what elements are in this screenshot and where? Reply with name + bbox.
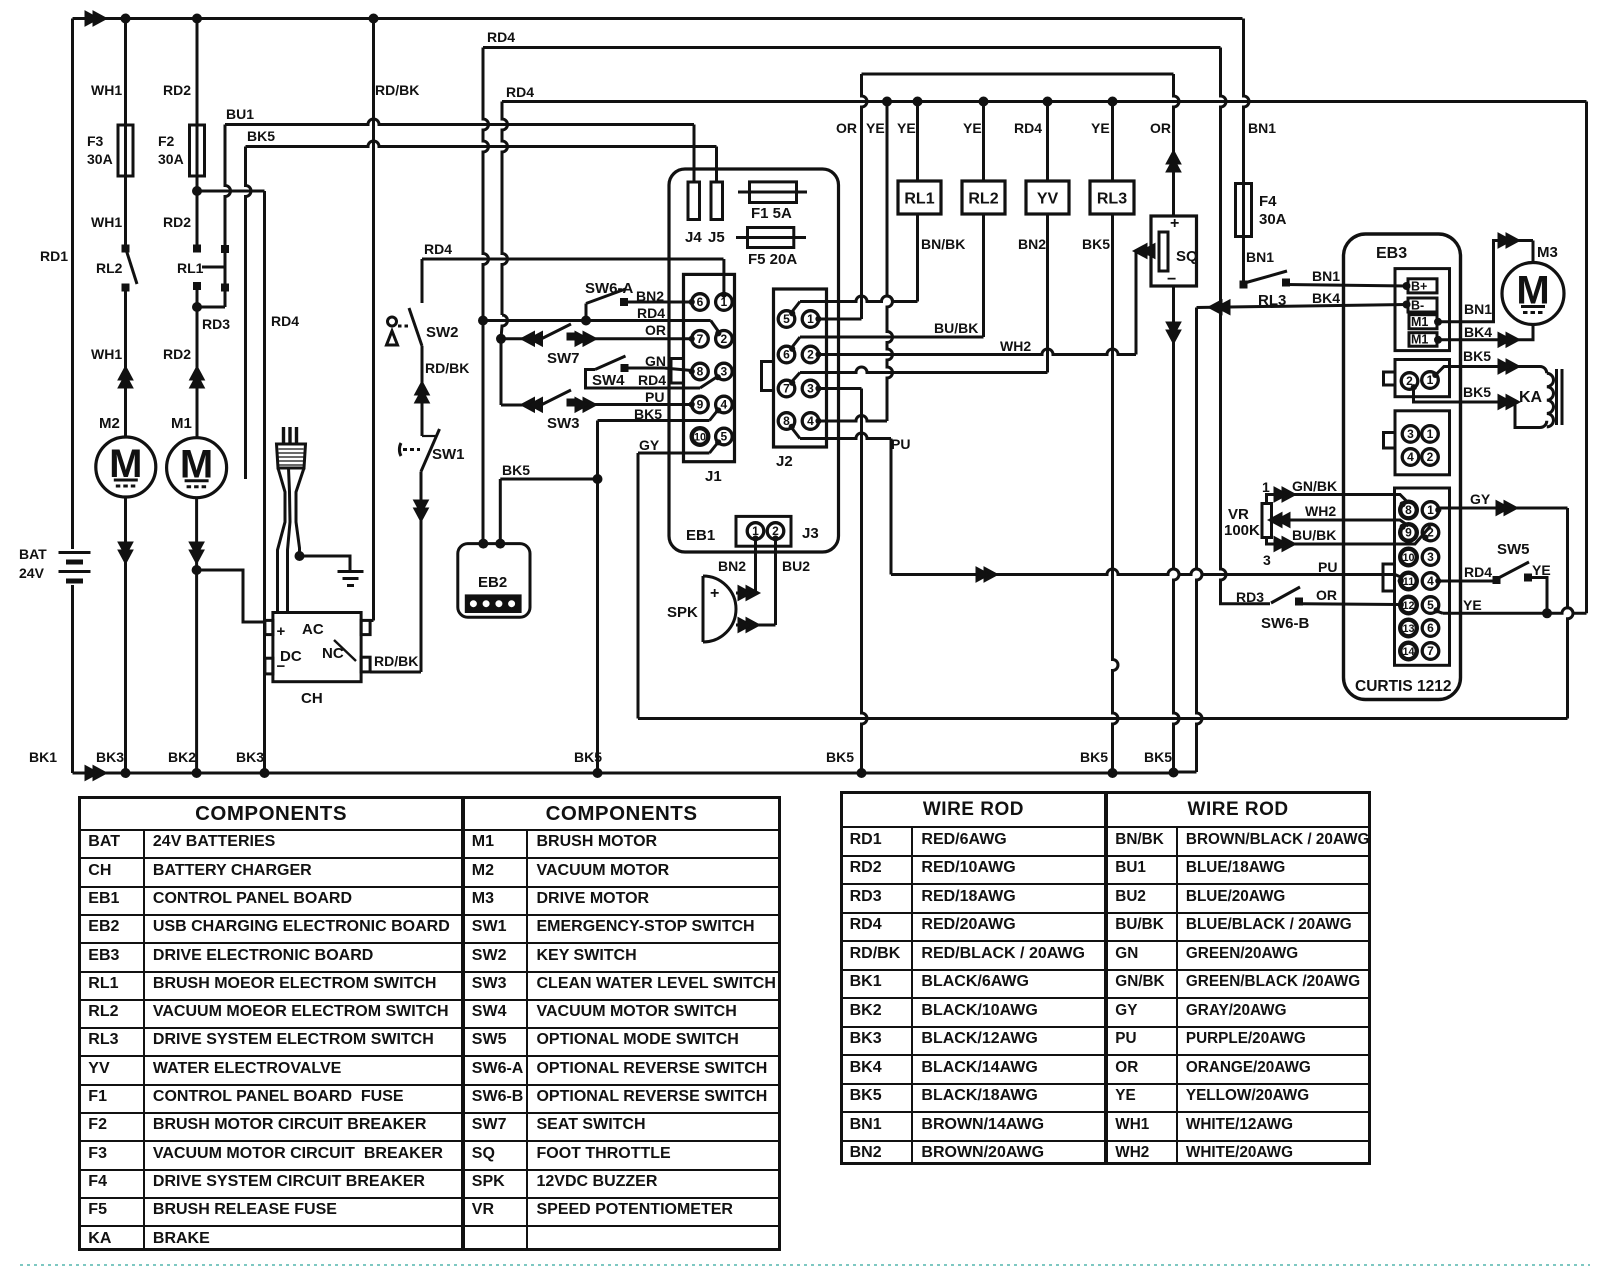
dashes key SW2 <box>398 325 411 328</box>
svg-text:OR: OR <box>836 120 857 136</box>
wire RD2 upper <box>196 19 199 126</box>
pin J2-8 <box>778 413 795 430</box>
svg-text:BK3: BK3 <box>96 749 124 765</box>
svg-text:RD3: RD3 <box>202 316 230 332</box>
svg-text:OR: OR <box>1316 587 1337 603</box>
svg-text:F5 20A: F5 20A <box>748 251 797 268</box>
svg-text:1: 1 <box>1427 427 1434 441</box>
wire BK5 horizontal <box>246 141 717 147</box>
pin J1-4 <box>716 396 733 413</box>
svg-text:3: 3 <box>721 365 728 379</box>
arrow down M2 wire <box>118 542 133 564</box>
arrow up SQ wire <box>1166 150 1181 172</box>
svg-text:OR: OR <box>1150 120 1171 136</box>
pin 14pin-3 <box>1422 549 1439 566</box>
svg-text:GY: GY <box>639 437 660 453</box>
blade SW2 <box>409 308 422 346</box>
svg-text:14: 14 <box>1402 646 1414 658</box>
svg-text:PU: PU <box>891 436 910 452</box>
wire RL2 coil bottom <box>982 214 985 337</box>
pin J1-10 <box>692 428 709 445</box>
wire RD4 to EB2 <box>482 321 485 544</box>
svg-text:6: 6 <box>783 348 790 362</box>
svg-text:BU/BK: BU/BK <box>934 320 978 336</box>
arrow up M2 wire <box>118 366 133 388</box>
wire RD4 into J1 pin1 <box>722 259 725 294</box>
junction RL3 bus <box>1108 97 1118 107</box>
terminal block B+ B- M1 M1 <box>1395 269 1450 351</box>
wire BK5 diagonal to pin4 <box>710 411 718 421</box>
svg-text:1: 1 <box>1262 479 1270 495</box>
svg-text:B-: B- <box>1411 299 1424 313</box>
terminal CH DC plus <box>265 620 273 634</box>
wire plug earth <box>296 468 304 556</box>
pin attachment dots <box>689 299 695 305</box>
wire BU1 horizontal <box>225 119 694 125</box>
throttle SQ element <box>1159 232 1168 271</box>
wire YV coil bottom <box>1046 214 1049 373</box>
svg-text:J3: J3 <box>802 525 819 542</box>
wire SW1 down <box>420 472 423 673</box>
svg-text:BK5: BK5 <box>1463 384 1491 400</box>
svg-text:2: 2 <box>1427 450 1434 464</box>
svg-text:SW3: SW3 <box>547 415 580 432</box>
relay coil RL2 <box>962 181 1005 214</box>
svg-text:30A: 30A <box>1259 211 1287 228</box>
wire GY from J1 pin5 <box>638 452 710 455</box>
svg-text:RD2: RD2 <box>163 82 191 98</box>
wire RD4 main bus <box>502 100 1587 103</box>
blade SW6-B <box>1271 587 1300 603</box>
arrow into SPK plus <box>738 586 760 601</box>
relay contact RL1 <box>193 245 201 253</box>
wire BK5 from EB2 <box>499 479 502 544</box>
svg-text:12: 12 <box>1402 600 1414 612</box>
junction CH minus bus <box>260 768 270 778</box>
svg-text:CURTIS 1212: CURTIS 1212 <box>1355 678 1451 695</box>
svg-text:RL2: RL2 <box>968 191 998 208</box>
svg-text:WH1: WH1 <box>91 214 122 230</box>
pin 14pin-10 <box>1400 549 1417 566</box>
pin J2-2 <box>802 346 819 363</box>
svg-text:+: + <box>710 585 719 602</box>
pin M1 lower <box>1434 336 1442 344</box>
svg-text:YE: YE <box>1532 562 1551 578</box>
wire RD/BK into AC terminal <box>370 619 374 622</box>
junction RL2 bus <box>979 97 989 107</box>
wire BU1 <box>197 190 265 193</box>
wire BK5 riser <box>596 421 599 480</box>
arrow up SW2 wire <box>415 381 430 403</box>
svg-text:8: 8 <box>1405 503 1412 517</box>
wire BK5 to J1 pin4 <box>598 419 710 422</box>
svg-text:AC: AC <box>302 621 324 638</box>
wire battery negative to BK1 bus <box>71 585 74 773</box>
wire RD2 to junction <box>196 176 199 191</box>
pin 2pin-2 <box>1401 373 1418 390</box>
svg-text:3: 3 <box>1263 552 1271 568</box>
wire GY bottom long <box>638 717 1568 720</box>
svg-text:8: 8 <box>697 365 704 379</box>
arrow GN/BK <box>1274 487 1296 502</box>
arrow up M1 wire <box>190 366 205 388</box>
wire CH plus to M1 node <box>197 570 265 622</box>
svg-text:SW1: SW1 <box>432 446 465 463</box>
blade SW4 <box>595 356 626 370</box>
svg-text:RD/BK: RD/BK <box>425 360 469 376</box>
terminal B- <box>1408 298 1437 312</box>
valve coil YV <box>1026 181 1069 214</box>
pin 14pin-2 <box>1422 524 1439 541</box>
svg-text:7: 7 <box>1427 644 1434 658</box>
svg-text:BK4: BK4 <box>1312 290 1340 306</box>
svg-text:EB1: EB1 <box>686 527 715 544</box>
svg-text:10: 10 <box>694 432 706 444</box>
svg-text:4: 4 <box>1407 450 1414 464</box>
svg-text:RD/BK: RD/BK <box>375 82 419 98</box>
wire BK4 M1 to M3 <box>1438 325 1533 340</box>
pin 14pin-9 <box>1400 524 1417 541</box>
wire GN stub <box>628 367 664 370</box>
breaker F2 <box>190 125 205 176</box>
svg-text:BK5: BK5 <box>247 128 275 144</box>
wire WH1 upper <box>124 19 127 126</box>
wire M2 to bus <box>124 497 127 773</box>
svg-text:BK2: BK2 <box>168 749 196 765</box>
wire RD4 to J1 pin2 <box>483 319 711 322</box>
svg-text:M1: M1 <box>1411 315 1428 329</box>
wire RD2 lower <box>196 286 199 437</box>
wire GN to pin8 <box>664 368 692 371</box>
terminal M1 lower <box>1409 333 1437 347</box>
wire RL1 blade down <box>224 288 227 308</box>
water level switch SW3 <box>501 404 527 407</box>
svg-text:BN/BK: BN/BK <box>921 236 965 252</box>
svg-text:BK5: BK5 <box>634 406 662 422</box>
wire RD4 diagonal to pin3 <box>700 378 716 389</box>
pin J1-2 <box>716 331 733 348</box>
svg-text:RD2: RD2 <box>163 214 191 230</box>
blade RL1 <box>224 249 227 288</box>
wire RD2 mid <box>196 191 199 249</box>
svg-text:3: 3 <box>807 382 814 396</box>
svg-text:SPK: SPK <box>667 604 698 621</box>
svg-text:BK3: BK3 <box>236 749 264 765</box>
svg-text:SQ: SQ <box>1176 248 1198 265</box>
pin B- <box>1403 301 1411 309</box>
wire plug left <box>278 468 286 613</box>
junction RL1 bus <box>913 97 923 107</box>
svg-text:RD/BK: RD/BK <box>374 653 418 669</box>
pin J1-1 <box>716 294 733 311</box>
wire BN2 down <box>754 539 757 593</box>
svg-text:M1: M1 <box>1411 333 1428 347</box>
connector 4pin <box>1395 411 1450 475</box>
svg-text:RD4: RD4 <box>1014 120 1042 136</box>
wire BK5 EB2 horizontal <box>500 478 597 481</box>
fuse F1 <box>738 191 807 194</box>
pin 4pin-1 <box>1422 426 1439 443</box>
pin J1-6 <box>692 294 709 311</box>
separator dotted line <box>20 1264 1590 1266</box>
motor M2 <box>96 437 156 497</box>
pin 4pin-2 <box>1422 449 1439 466</box>
junction top RD2 <box>192 14 202 24</box>
pin J3-2 <box>767 523 784 540</box>
svg-text:F3: F3 <box>87 133 104 149</box>
svg-text:YV: YV <box>1037 191 1059 208</box>
pin J2-3 <box>802 380 819 397</box>
wire GY diagonal pin5 <box>710 443 718 453</box>
svg-text:+: + <box>1170 215 1179 232</box>
connector 2pin <box>1395 360 1450 397</box>
connector J2 tab <box>762 362 774 391</box>
svg-text:24V: 24V <box>19 565 45 581</box>
junction SQ bus <box>1169 768 1179 778</box>
relay coil RL3 <box>1090 181 1134 214</box>
wire RD1 left border <box>71 19 74 550</box>
wire RD4 vertical from top line 2 <box>483 48 489 321</box>
svg-text:YE: YE <box>1463 597 1482 613</box>
junction EB2 pin2 <box>495 539 505 549</box>
svg-text:M3: M3 <box>1537 244 1558 261</box>
junction top WH1 <box>121 14 131 24</box>
svg-text:4: 4 <box>807 414 814 428</box>
pin J2-5 <box>778 311 795 328</box>
svg-text:1: 1 <box>807 312 814 326</box>
svg-text:2: 2 <box>721 332 728 346</box>
junction M2 bus <box>121 768 131 778</box>
svg-text:RL1: RL1 <box>177 260 204 276</box>
terminal CH NC <box>361 657 370 672</box>
pin J3-1 <box>747 523 764 540</box>
vacuum switch SW4 <box>621 364 629 372</box>
svg-text:CH: CH <box>301 690 323 707</box>
emergency stop SW1 <box>422 435 437 437</box>
svg-text:EB3: EB3 <box>1376 245 1407 262</box>
svg-text:4: 4 <box>1427 574 1434 588</box>
svg-text:2: 2 <box>807 348 814 362</box>
svg-text:YE: YE <box>866 120 885 136</box>
breaker F4 <box>1244 19 1250 184</box>
wire BN/BK J2 pin5 to RL1 <box>791 302 800 314</box>
wire BN2 to J1 pin6 <box>628 301 692 304</box>
svg-text:RD4: RD4 <box>637 305 665 321</box>
wire WH1 mid <box>124 176 127 245</box>
svg-text:4: 4 <box>721 398 728 412</box>
motor M1 <box>167 438 227 498</box>
svg-text:BN1: BN1 <box>1312 268 1340 284</box>
svg-text:B+: B+ <box>1411 280 1427 294</box>
wire diagonal to pin2 <box>711 321 720 334</box>
blade SW6-A <box>586 289 626 304</box>
wire WH2 J2 pin2 to SQ wiper <box>819 349 1137 355</box>
pin J1-9 <box>692 396 709 413</box>
svg-text:13: 13 <box>1402 623 1414 635</box>
svg-text:WH1: WH1 <box>91 346 122 362</box>
svg-text:+: + <box>277 623 286 640</box>
svg-text:BN1: BN1 <box>1246 249 1274 265</box>
svg-text:GN/BK: GN/BK <box>1292 478 1337 494</box>
svg-text:BK1: BK1 <box>29 749 57 765</box>
svg-text:GY: GY <box>1470 491 1491 507</box>
svg-text:11: 11 <box>1403 576 1414 588</box>
svg-text:BK5: BK5 <box>1080 749 1108 765</box>
pin J1-3 <box>716 363 733 380</box>
svg-text:1: 1 <box>1427 503 1434 517</box>
svg-text:BK5: BK5 <box>502 462 530 478</box>
wire BK5 pin1 to KA <box>1436 367 1540 375</box>
terminal CH DC minus <box>265 658 273 674</box>
svg-text:5: 5 <box>1427 598 1434 612</box>
wire BK5 SQ down to bus <box>1174 286 1180 773</box>
svg-text:9: 9 <box>1405 526 1412 540</box>
pin 14pin-14 <box>1400 643 1417 660</box>
wire RD/BK to NC <box>370 671 421 674</box>
wire RD4 into SW2 <box>421 259 424 303</box>
wire RD4 vertical bus drop <box>502 102 508 316</box>
svg-text:BN1: BN1 <box>1464 301 1492 317</box>
svg-text:YE: YE <box>1091 120 1110 136</box>
svg-text:10: 10 <box>1402 552 1414 564</box>
wire hop over RD4 line <box>501 315 508 339</box>
svg-text:BK5: BK5 <box>1463 348 1491 364</box>
connector J1 tab <box>671 359 684 384</box>
svg-text:WH2: WH2 <box>1000 338 1031 354</box>
wire OR down to SQ <box>1174 74 1180 216</box>
svg-text:3: 3 <box>1427 550 1434 564</box>
junction YE1 bus <box>882 97 892 107</box>
svg-text:F4: F4 <box>1259 193 1277 210</box>
svg-text:−: − <box>277 658 286 675</box>
wire YE pin5 <box>1436 611 1443 613</box>
wire PU to J1 pin9 <box>589 403 692 406</box>
svg-text:7: 7 <box>697 332 704 346</box>
pin 2pin-1 <box>1422 372 1439 389</box>
pin 14pin-12 <box>1400 597 1417 614</box>
throttle SQ box <box>1151 216 1197 286</box>
arrow on RD1 bus <box>85 11 107 26</box>
pin 14pin-1 <box>1422 502 1439 519</box>
wire OR to pin12 <box>1302 602 1400 606</box>
wire RD4 vertical left <box>263 191 266 773</box>
svg-text:SW4: SW4 <box>592 372 625 389</box>
wire BU1 vertical to RL1 <box>225 125 231 250</box>
svg-text:YE: YE <box>963 120 982 136</box>
svg-text:PU: PU <box>645 389 664 405</box>
svg-text:RD2: RD2 <box>163 346 191 362</box>
junction F2 out <box>192 186 202 196</box>
svg-text:M2: M2 <box>99 415 120 432</box>
usb ports EB2 <box>466 596 520 612</box>
svg-text:RD3: RD3 <box>1236 589 1264 605</box>
svg-text:30A: 30A <box>158 151 184 167</box>
svg-text:GN: GN <box>645 353 666 369</box>
usb board EB2 box <box>458 544 530 618</box>
wire RD4 bus right down <box>1585 102 1588 614</box>
svg-text:5: 5 <box>783 312 790 326</box>
svg-text:KA: KA <box>1519 389 1543 406</box>
arrow into SPK minus <box>738 618 760 633</box>
blade SW1 <box>421 429 440 472</box>
svg-text:J1: J1 <box>705 468 722 485</box>
relay contact RL3 <box>1240 281 1248 289</box>
breaker F3 <box>118 125 133 176</box>
wire RL1 coil bottom <box>916 214 919 302</box>
svg-text:SW6-B: SW6-B <box>1261 615 1310 632</box>
wire BK5 J2 pin3 down to bus <box>819 387 862 390</box>
svg-text:F1 5A: F1 5A <box>751 205 792 222</box>
junction BK5 bus right <box>857 768 867 778</box>
junction BK5 <box>593 474 603 484</box>
svg-text:RD4: RD4 <box>506 84 534 100</box>
junction RD4 line <box>478 316 488 326</box>
brake coil KA <box>1540 367 1547 374</box>
svg-text:YE: YE <box>897 120 916 136</box>
svg-text:RD4: RD4 <box>424 241 452 257</box>
wire BU1 drop to J4 <box>693 125 696 183</box>
wire to ground <box>300 556 351 572</box>
connector J5 <box>711 182 723 220</box>
terminal CH AC <box>361 620 370 634</box>
svg-text:5: 5 <box>721 430 728 444</box>
blade RL3 <box>1245 271 1288 283</box>
wire BK5 pin2 to KA <box>1414 388 1541 428</box>
connector 2pin tab <box>1384 372 1396 385</box>
svg-text:6: 6 <box>697 295 704 309</box>
svg-text:BN2: BN2 <box>1018 236 1046 252</box>
svg-text:RD4: RD4 <box>638 372 666 388</box>
svg-text:BK4: BK4 <box>1464 324 1492 340</box>
junction EB2 pin1 <box>478 539 488 549</box>
svg-text:6: 6 <box>1427 621 1434 635</box>
wire BU2 down <box>774 539 777 625</box>
plug AC <box>282 427 285 444</box>
svg-text:RL2: RL2 <box>96 260 123 276</box>
pin 14pin-11 <box>1400 573 1417 590</box>
pin B+ <box>1403 282 1411 290</box>
junction BK5 bus <box>593 768 603 778</box>
wire YE to RL1 <box>916 102 919 182</box>
arrow BU/BK <box>1274 537 1296 552</box>
svg-text:J2: J2 <box>776 453 793 470</box>
svg-text:SW5: SW5 <box>1497 541 1530 558</box>
pin 14pin-5 <box>1422 597 1439 614</box>
terminal M1 upper <box>1409 315 1437 329</box>
relay coil RL1 <box>898 181 941 214</box>
svg-text:RL1: RL1 <box>904 191 934 208</box>
wire BN1 F4 to RL3 <box>1242 237 1245 283</box>
blade SW7 <box>540 324 571 340</box>
svg-text:7: 7 <box>783 382 790 396</box>
wire PU J2 pin8 <box>791 427 800 439</box>
junction M1 bus <box>192 768 202 778</box>
wire RD4 to J1 pin1 <box>422 258 724 261</box>
svg-text:100K: 100K <box>1224 522 1260 539</box>
svg-text:9: 9 <box>697 398 704 412</box>
connector 14pin tab <box>1383 564 1395 591</box>
pin J1-5 <box>716 428 733 445</box>
junction SW7 feed <box>496 334 506 344</box>
wire GY vertical down <box>637 453 640 719</box>
svg-text:RD4: RD4 <box>271 313 299 329</box>
svg-text:BK5: BK5 <box>1144 749 1172 765</box>
wire RD4 to YV <box>1046 102 1049 182</box>
connector J2 box <box>774 289 827 447</box>
svg-text:J5: J5 <box>708 229 725 246</box>
connector J1 box <box>684 274 735 461</box>
svg-text:BU/BK: BU/BK <box>1292 527 1336 543</box>
